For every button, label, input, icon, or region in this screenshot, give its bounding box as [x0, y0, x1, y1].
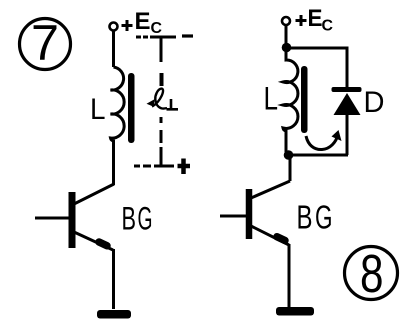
svg-text:C: C	[151, 20, 163, 37]
svg-text:L: L	[90, 93, 106, 126]
svg-text:B: B	[122, 201, 137, 237]
svg-text:G: G	[138, 201, 153, 237]
svg-text:7: 7	[31, 15, 59, 71]
svg-text:8: 8	[360, 244, 384, 304]
svg-text:E: E	[135, 8, 151, 35]
svg-text:G: G	[315, 199, 333, 236]
svg-text:B: B	[297, 199, 313, 236]
svg-text:D: D	[364, 86, 385, 119]
svg-text:E: E	[308, 5, 323, 32]
svg-text:C: C	[322, 18, 334, 35]
svg-text:L: L	[264, 81, 279, 117]
